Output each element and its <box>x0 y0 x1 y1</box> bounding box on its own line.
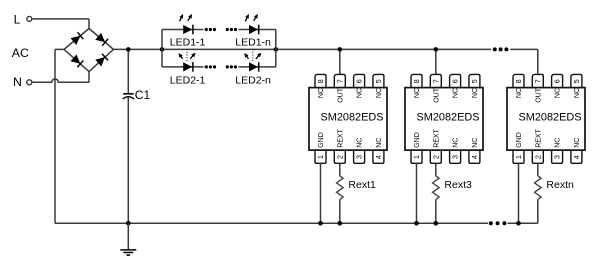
ellipsis LED top branch <box>205 28 208 31</box>
svg-text:7: 7 <box>335 79 344 83</box>
wire Rext3 to bottom rail <box>435 200 437 224</box>
svg-text:NC: NC <box>414 88 421 98</box>
wire U1 GND (pin 1) to bottom rail <box>320 163 322 223</box>
svg-text:LED1-n: LED1-n <box>235 36 271 48</box>
wire bridge left corner to bottom rail <box>55 48 64 50</box>
wire U1 REXT (pin 2) to resistor <box>339 163 341 176</box>
IC U2 body <box>405 88 483 151</box>
junction bottom rail / Rext1 <box>338 221 343 226</box>
wire bottom rail (left to ellipsis) <box>55 222 488 224</box>
svg-text:NC: NC <box>574 88 581 98</box>
junction bottom rail / Rext3 <box>434 221 439 226</box>
wire LED top branch <box>162 29 204 31</box>
svg-text:GND: GND <box>414 132 421 148</box>
wire Rext1 to bottom rail <box>339 200 341 224</box>
svg-text:NC: NC <box>357 88 364 98</box>
svg-text:8: 8 <box>412 79 421 83</box>
svg-text:3: 3 <box>553 155 562 159</box>
svg-text:NC: NC <box>555 138 562 148</box>
svg-text:L: L <box>14 13 21 27</box>
op IC U1 pin boxes top (8 7 6 5) <box>315 74 326 88</box>
IC U1 body <box>309 88 387 151</box>
op IC U2 pin boxes top (8 7 6 5) <box>411 74 422 88</box>
svg-text:Rextn: Rextn <box>546 179 574 191</box>
svg-text:SM2082EDS: SM2082EDS <box>321 111 384 123</box>
svg-text:1: 1 <box>316 155 325 159</box>
svg-text:NC: NC <box>516 88 523 98</box>
junction top rail / C1 <box>126 47 131 52</box>
terminal N <box>27 80 32 85</box>
svg-text:7: 7 <box>431 79 440 83</box>
svg-text:6: 6 <box>355 79 364 83</box>
junction top rail / U1 OUT <box>338 47 343 52</box>
wire U3 GND (pin 1) to bottom rail <box>518 163 520 223</box>
svg-text:2: 2 <box>533 155 542 159</box>
wire top rail to U1 OUT (pin 7) <box>339 49 341 74</box>
wire top rail to U2 OUT (pin 7) <box>435 49 437 74</box>
ground <box>120 249 136 251</box>
ellipsis top rail <box>493 47 497 51</box>
wire top rail (bridge to ellipsis) <box>114 48 492 50</box>
wire LED block left vertical <box>161 30 163 67</box>
svg-text:2: 2 <box>431 155 440 159</box>
op IC U3 pin boxes top (8 7 6 5) <box>513 74 524 88</box>
IC U3 body <box>507 88 585 151</box>
junction bottom rail / U1 GND <box>318 221 323 226</box>
svg-text:OUT: OUT <box>535 87 542 103</box>
svg-text:6: 6 <box>451 79 460 83</box>
IC U1 pin boxes bottom (1 2 3 4) <box>315 150 326 164</box>
svg-text:SM2082EDS: SM2082EDS <box>417 111 480 123</box>
wire to ground <box>127 223 129 250</box>
wire U2 REXT (pin 2) to resistor <box>435 163 437 176</box>
svg-text:OUT: OUT <box>337 87 344 103</box>
svg-text:N: N <box>13 75 22 89</box>
svg-text:NC: NC <box>472 88 479 98</box>
ellipsis LED bottom branch <box>205 65 208 68</box>
svg-text:3: 3 <box>355 155 364 159</box>
svg-text:2: 2 <box>335 155 344 159</box>
bridge rectifier (diamond) <box>64 29 114 72</box>
svg-text:1: 1 <box>514 155 523 159</box>
IC U3 pin boxes bottom (1 2 3 4) <box>513 150 524 164</box>
svg-text:NC: NC <box>453 88 460 98</box>
wire U3 REXT (pin 2) to resistor <box>537 163 539 176</box>
svg-text:1: 1 <box>412 155 421 159</box>
svg-text:3: 3 <box>451 155 460 159</box>
svg-text:NC: NC <box>574 138 581 148</box>
svg-text:NC: NC <box>376 88 383 98</box>
junction top rail / LED block right <box>274 47 279 52</box>
svg-text:LED2-1: LED2-1 <box>170 75 206 87</box>
junction top rail / LED block left <box>160 47 165 52</box>
junction bottom rail / ground <box>126 221 131 226</box>
svg-text:GND: GND <box>318 132 325 148</box>
svg-text:5: 5 <box>572 79 581 83</box>
LED LED2-1 <box>183 62 192 71</box>
wire top rail to U3 OUT <box>510 48 538 50</box>
svg-text:LED1-1: LED1-1 <box>170 36 206 48</box>
wire N terminal to bridge bottom (hops over left drop) <box>32 79 89 82</box>
LED LED1-1 <box>183 25 192 34</box>
svg-text:REXT: REXT <box>535 128 542 147</box>
bridge diode bottom-left <box>71 54 81 63</box>
resistor Rextn <box>535 176 542 200</box>
wire U2 GND (pin 1) to bottom rail <box>416 163 418 223</box>
resistor Rext3 <box>433 176 440 200</box>
capacitor C1 <box>123 93 133 95</box>
svg-text:4: 4 <box>470 155 479 159</box>
wire C1 to bottom rail <box>127 97 129 223</box>
wire LED bottom branch <box>162 66 204 68</box>
bridge diode top-right <box>95 33 105 42</box>
svg-text:Rext1: Rext1 <box>348 179 376 191</box>
wire L terminal to bridge top <box>32 18 89 20</box>
svg-text:AC: AC <box>12 46 29 60</box>
wire top rail to C1 <box>127 49 129 93</box>
LED LED1-n <box>249 25 258 34</box>
svg-text:GND: GND <box>516 132 523 148</box>
svg-text:REXT: REXT <box>337 128 344 147</box>
svg-text:4: 4 <box>374 155 383 159</box>
svg-text:NC: NC <box>453 138 460 148</box>
svg-text:REXT: REXT <box>433 128 440 147</box>
IC U2 pin boxes bottom (1 2 3 4) <box>411 150 422 164</box>
wire Rextn to bottom rail <box>537 200 539 224</box>
junction bottom rail / U2 GND <box>414 221 419 226</box>
svg-text:SM2082EDS: SM2082EDS <box>519 111 582 123</box>
svg-text:LED2-n: LED2-n <box>235 75 271 87</box>
LED LED2-n <box>249 62 258 71</box>
svg-text:NC: NC <box>555 88 562 98</box>
svg-text:NC: NC <box>472 138 479 148</box>
svg-text:Rext3: Rext3 <box>444 179 472 191</box>
svg-text:8: 8 <box>316 79 325 83</box>
junction bottom rail / U3 GND <box>516 221 521 226</box>
wire LED block right vertical <box>275 30 277 67</box>
bridge diode top-left <box>71 36 81 45</box>
svg-text:OUT: OUT <box>433 87 440 103</box>
terminal L <box>27 16 32 21</box>
wire bottom rail right segment <box>508 222 538 224</box>
svg-text:6: 6 <box>553 79 562 83</box>
ellipsis bottom rail <box>489 221 493 225</box>
resistor Rext1 <box>337 176 344 200</box>
svg-text:8: 8 <box>514 79 523 83</box>
svg-text:7: 7 <box>533 79 542 83</box>
junction top rail / U2 OUT <box>434 47 439 52</box>
svg-text:4: 4 <box>572 155 581 159</box>
svg-text:NC: NC <box>357 138 364 148</box>
svg-text:NC: NC <box>376 138 383 148</box>
svg-text:5: 5 <box>470 79 479 83</box>
bridge diode bottom-right <box>95 57 105 67</box>
svg-text:C1: C1 <box>135 88 151 102</box>
svg-text:5: 5 <box>374 79 383 83</box>
svg-text:NC: NC <box>318 88 325 98</box>
